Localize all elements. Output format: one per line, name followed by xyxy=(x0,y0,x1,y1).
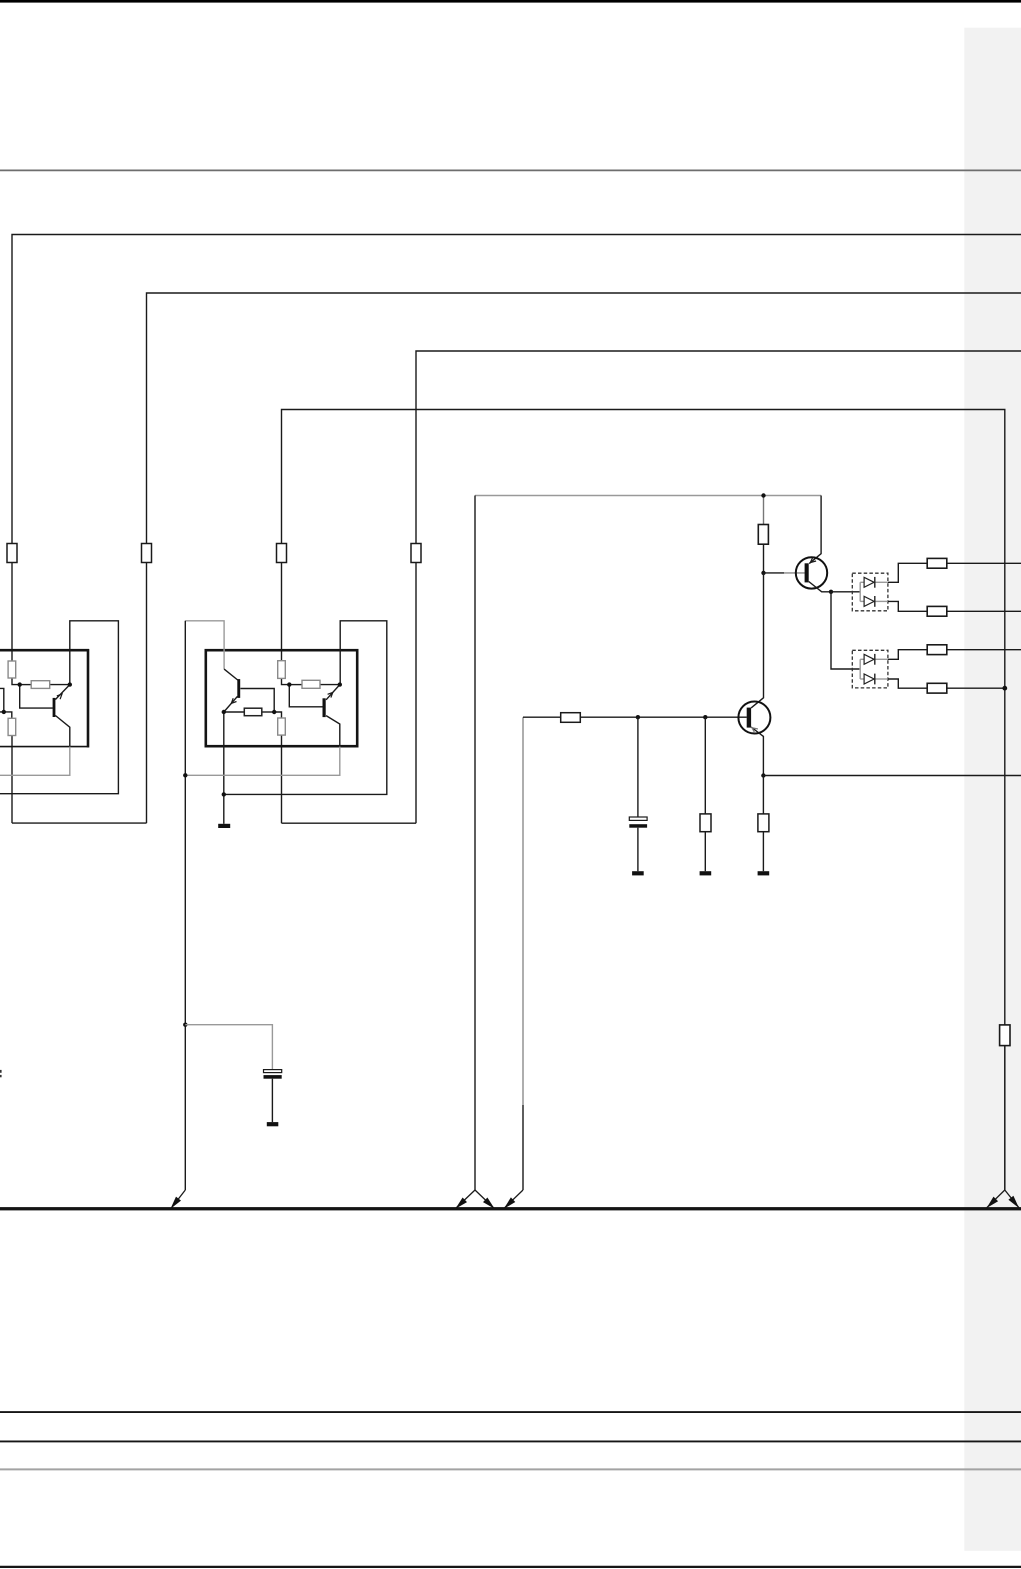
D2 internal gray link xyxy=(860,659,888,679)
U2 node c xyxy=(222,710,226,714)
output row 3 wire xyxy=(888,650,927,660)
resistor R6 xyxy=(700,814,711,832)
header rule xyxy=(0,169,1021,171)
U2 node b xyxy=(338,682,342,686)
Q1 emitter feed xyxy=(809,496,821,564)
wire to opto box D2 xyxy=(831,592,859,669)
Q2 collector wire xyxy=(751,573,763,708)
resistor R3 top xyxy=(277,544,287,563)
node Q1 collector xyxy=(829,590,833,594)
ground bus xyxy=(0,1207,1021,1210)
resistor R6 leg lower xyxy=(704,832,706,872)
U2 node a xyxy=(287,682,291,686)
U2 right emitter gray tail xyxy=(185,747,339,776)
U2 right emitter diagonal xyxy=(326,716,340,748)
U2 right emitter arrow xyxy=(328,692,333,697)
U2 transistor bar left xyxy=(237,679,240,698)
diode D2a xyxy=(864,654,874,664)
Q2 base wire xyxy=(523,716,747,718)
U2 resistor bottom xyxy=(278,718,286,735)
resistor R8 leg upper xyxy=(762,776,764,814)
capacitor C2 lower lead xyxy=(271,1079,273,1122)
emitter sense line to edge xyxy=(763,775,1021,777)
U2 jog to lower resistor xyxy=(274,712,281,718)
U1 left stub lower xyxy=(0,712,12,718)
U2 left base wire xyxy=(240,689,274,713)
resistor R1 top xyxy=(7,544,17,563)
U1 resistor top xyxy=(8,661,16,678)
footer rule 3 xyxy=(0,1468,1021,1470)
resistor R8 leg lower xyxy=(762,832,764,872)
resistor R2 top xyxy=(142,544,152,563)
ground bar R6 xyxy=(700,871,712,875)
U2 node d xyxy=(272,710,276,714)
output row 1 to edge xyxy=(947,562,1021,564)
U2 left emitter arrow xyxy=(231,698,236,703)
long right wire lower xyxy=(1004,1046,1006,1190)
bottom rule xyxy=(0,1566,1021,1568)
U2 transistor bar right xyxy=(323,698,326,717)
output row 4 wire xyxy=(888,679,927,688)
resistor R5 base xyxy=(561,713,581,723)
U1 base wire xyxy=(20,685,53,709)
output resistor row 3 xyxy=(927,645,947,655)
opto box D2 dashed outline xyxy=(852,650,888,688)
U1 node c xyxy=(2,710,6,714)
U2 ground bar xyxy=(218,824,230,828)
transistor Q2 bar xyxy=(747,708,751,728)
node Q2 emitter xyxy=(761,773,765,777)
ground bar C1 xyxy=(632,871,644,875)
U2 gray top-left entry xyxy=(185,621,224,669)
bottom U link left xyxy=(11,736,13,824)
capacitor C1 leg xyxy=(637,717,639,817)
U1 left stub upper xyxy=(0,688,4,712)
footer rule 2 xyxy=(0,1440,1021,1442)
U2 resistor horizontal left xyxy=(244,708,261,716)
Q2 emitter diagonal xyxy=(751,727,763,776)
transistor Q1 circle xyxy=(796,557,827,588)
resistor R6 leg upper xyxy=(704,717,706,814)
bus arrow below Q2 base drop xyxy=(504,1190,523,1209)
footer rule 1 xyxy=(0,1411,1021,1413)
U1 collector diagonal xyxy=(55,685,69,700)
resistor R9 on long right wire xyxy=(1000,1025,1010,1046)
U2 wires xyxy=(224,621,387,824)
wire rail 1 xyxy=(12,235,1021,545)
bottom U link right v xyxy=(281,735,283,823)
node Q1 base xyxy=(761,571,765,575)
U1 resistor horizontal xyxy=(31,681,50,689)
U2 node-to-hres2 xyxy=(289,684,302,686)
U1 outer corner wire xyxy=(0,621,118,794)
bus arrows below drop wire xyxy=(455,1190,494,1209)
U1 emitter diagonal xyxy=(55,716,69,748)
diode D1b xyxy=(864,596,874,606)
Q2 emitter arrow xyxy=(752,728,758,733)
U2 left ground leg xyxy=(223,712,225,824)
opto box D1 dashed outline xyxy=(852,573,888,611)
resistor R8 xyxy=(758,814,769,832)
U2 right collector diagonal xyxy=(326,685,340,700)
output row 2 to edge xyxy=(947,610,1021,612)
output resistor row 1 xyxy=(927,558,947,568)
resistor R4 top xyxy=(411,544,421,563)
capacitor C2 gray branch xyxy=(185,1025,272,1070)
bottom U link left h xyxy=(12,822,147,824)
Q1 collector diagonal xyxy=(809,582,831,592)
U1 resistor bottom xyxy=(8,718,16,735)
diode D2b xyxy=(864,674,874,684)
long drop wire left xyxy=(184,621,186,1190)
U1 node a xyxy=(18,682,22,686)
U2 hres2-to-node xyxy=(320,684,340,686)
wire rail 3 xyxy=(416,351,1021,544)
wire rail 4 xyxy=(282,410,1005,1025)
bus arrow left xyxy=(171,1190,185,1209)
drop wire from feed rail xyxy=(474,496,476,1191)
U1 hres-to-node wire xyxy=(50,684,70,686)
ground bar R8 xyxy=(758,871,770,875)
Q1 emitter arrow xyxy=(810,557,816,562)
wire rail 1 lower xyxy=(11,563,13,662)
U1 emitter gray tail xyxy=(0,747,70,776)
diode D1a xyxy=(864,577,874,587)
output resistor row 4 xyxy=(927,683,947,693)
capacitor C2 bottom plate xyxy=(264,1075,282,1079)
U2 loop wire xyxy=(224,621,387,795)
wire rail 2 xyxy=(147,293,1021,544)
IC box U1 outline xyxy=(0,649,89,748)
U1 wires xyxy=(0,621,118,794)
U2 resistor horizontal right xyxy=(302,680,320,688)
D1 internal gray link xyxy=(860,582,888,601)
output row 1 wire xyxy=(888,563,927,582)
node on long right wire xyxy=(1002,686,1007,691)
output row 3 to edge xyxy=(947,649,1021,651)
IC box U2 outline xyxy=(206,650,357,746)
node rail xyxy=(761,493,765,497)
wire to opto box D1 xyxy=(831,591,860,593)
bottom U link right h xyxy=(282,822,417,824)
U1 node b xyxy=(68,682,72,686)
U2 r1 jog xyxy=(282,678,290,684)
node base-res xyxy=(703,715,707,719)
resistor R7 xyxy=(758,525,768,545)
Q1 collector chain from rail xyxy=(763,496,765,525)
capacitor C1 bottom plate xyxy=(629,824,647,828)
gray feed rail to Q1 xyxy=(475,495,821,497)
cut-off symbol at left edge xyxy=(0,1070,2,1073)
Q1 base wire black part xyxy=(764,572,785,574)
U2 resistor top xyxy=(278,661,286,679)
transistor Q1 bar xyxy=(805,563,809,582)
node on drop wire lower xyxy=(183,1022,187,1026)
wire R7 to node xyxy=(763,544,765,573)
node base-cap xyxy=(636,715,640,719)
bus arrows below long right wire xyxy=(987,1190,1019,1208)
node on drop wire upper xyxy=(183,773,187,777)
output resistor row 2 xyxy=(927,606,947,616)
capacitor C2 end bar xyxy=(267,1122,279,1126)
TOP SUPPLY RAILS xyxy=(12,235,1021,1025)
U1 r1-to-node jog xyxy=(12,678,20,685)
U1 transistor bar xyxy=(53,698,56,717)
U2 left emitter diagonal xyxy=(224,696,238,712)
transistor Q2 circle xyxy=(738,702,770,734)
U2 right base wire xyxy=(289,685,322,707)
sidebar band xyxy=(964,28,1021,1551)
U1 node-to-hres wire xyxy=(20,684,32,686)
U2 left collector diagonal xyxy=(224,669,238,680)
U2 node e xyxy=(222,792,226,796)
drop wire Q2 base black part xyxy=(522,1105,524,1190)
wire rail 3 lower xyxy=(415,563,417,824)
wire rail 2 lower xyxy=(146,563,148,824)
output row 2 wire xyxy=(888,601,927,611)
top black bar xyxy=(0,0,1021,3)
capacitor C1 top plate xyxy=(629,817,647,820)
U2 node row wires xyxy=(224,711,245,713)
capacitor C2 top plate xyxy=(264,1070,282,1073)
Q1 base wire gray part xyxy=(784,572,805,574)
capacitor C1 lower lead xyxy=(637,828,639,872)
U1 emitter arrow xyxy=(57,694,62,699)
drop wire Q2 base gray part xyxy=(522,717,524,1105)
output row 4 to node xyxy=(947,687,1005,689)
